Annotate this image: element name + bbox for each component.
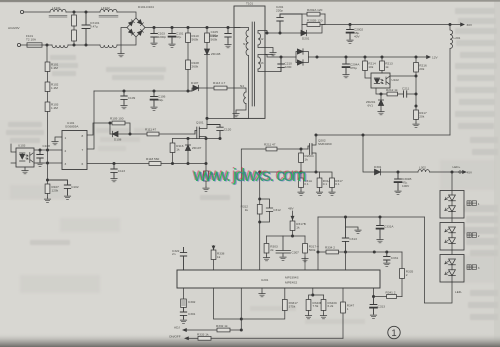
resistor R111 (130, 128, 195, 136)
primary return wire (206, 117, 249, 119)
svg-text:2: 2 (65, 149, 67, 153)
strip label 1 (467, 201, 480, 206)
svg-text:1: 1 (65, 136, 67, 140)
choke LF101 (49, 6, 67, 17)
resistor R109 (110, 117, 130, 135)
U102 emitter wire (376, 88, 387, 95)
svg-text:R118 560: R118 560 (146, 157, 159, 161)
svg-text:Q101: Q101 (196, 121, 204, 125)
svg-text:45V: 45V (467, 171, 473, 175)
svg-text:2k: 2k (270, 248, 274, 252)
sense resistor R301C (260, 172, 343, 195)
svg-text:R341 2: R341 2 (386, 291, 396, 295)
ADJ input (174, 326, 217, 332)
svg-text:375k: 375k (289, 305, 296, 309)
svg-text:10k: 10k (368, 65, 373, 69)
svg-text:0.1: 0.1 (323, 182, 328, 186)
capacitor C331A (377, 217, 395, 243)
svg-text:C302: C302 (188, 300, 196, 304)
electrolytic C2002 (347, 25, 364, 44)
capacitor C307 (276, 236, 299, 260)
transistor Q101 (195, 118, 207, 138)
startup resistor R101 (45, 45, 59, 72)
resistor R303 (263, 236, 278, 261)
resistor R107 (44, 180, 59, 202)
capacitor C314 (370, 297, 385, 319)
bridge rectifier D101-D104 (127, 5, 154, 37)
resistor R341 (372, 288, 402, 298)
current sense rail (259, 171, 318, 173)
LED D5 (445, 259, 456, 270)
wire (42, 38, 136, 47)
resistor R202A (302, 8, 325, 25)
resistor R312 (241, 199, 263, 223)
resistor R343C (320, 295, 338, 319)
svg-text:R109 100: R109 100 (110, 117, 124, 121)
svg-text:1k: 1k (245, 208, 249, 212)
svg-text:7: 7 (82, 148, 84, 152)
LED- return wire (424, 217, 462, 303)
capacitor C322 (172, 248, 187, 271)
resistor R333 (197, 332, 343, 340)
svg-text:LED-: LED- (455, 290, 462, 294)
T101 aux winding (236, 84, 246, 112)
svg-text:R334 2: R334 2 (325, 246, 335, 250)
svg-text:560k: 560k (192, 38, 199, 42)
resistor R335 (400, 252, 414, 297)
T101 winding N2 (258, 55, 265, 72)
capacitor C102 (48, 180, 79, 199)
zener ZD108 (205, 49, 221, 118)
resistor R317 (302, 236, 319, 270)
12V rail (308, 56, 438, 60)
watermark www.jdwxs.com (191, 164, 307, 186)
resistor R3317 (241, 288, 298, 319)
wire U103 to U101 pin3 (34, 162, 62, 164)
choke LF102 lower winding (100, 45, 117, 48)
svg-text:2200p: 2200p (209, 34, 218, 38)
svg-text:560k: 560k (309, 248, 316, 252)
LED D3 (445, 227, 456, 238)
diode D202A (296, 49, 308, 57)
svg-text:1.2M: 1.2M (51, 66, 58, 70)
LED+ output arrow (453, 165, 473, 175)
LED string box 1 (440, 172, 464, 218)
svg-text:1.2M: 1.2M (51, 106, 58, 110)
diode D108 (110, 131, 131, 141)
diode D301 (374, 165, 418, 175)
aux ground (233, 112, 239, 117)
resistor R334 (325, 246, 402, 254)
zener ZD107 (185, 139, 201, 164)
svg-text:8: 8 (82, 134, 84, 138)
svg-text:100V: 100V (402, 184, 410, 188)
bias wire (267, 235, 306, 237)
svg-text:C313: C313 (349, 237, 357, 241)
wire (24, 12, 136, 18)
svg-text:MPE4S2: MPE4S2 (285, 281, 297, 285)
svg-text:C312: C312 (273, 208, 281, 212)
capacitor C211 (402, 87, 417, 98)
svg-text:D107: D107 (191, 81, 199, 85)
comp wire (318, 251, 326, 253)
capacitor C331B (384, 252, 399, 266)
secondary lower wire (265, 55, 296, 72)
svg-text:2n: 2n (172, 252, 176, 256)
svg-text:T101: T101 (246, 2, 253, 6)
node column (317, 217, 319, 270)
capacitor C313 (342, 217, 361, 253)
resistor R213 (380, 57, 393, 73)
node junction (46, 150, 48, 181)
capacitor C301 (180, 308, 195, 324)
svg-text:MP3394S: MP3394S (285, 276, 299, 280)
svg-text:1k: 1k (176, 148, 180, 152)
svg-text:7.5k: 7.5k (313, 304, 319, 308)
svg-text:C313: C313 (378, 305, 386, 309)
optocoupler U103 (16, 144, 34, 168)
U103 cathode ground (11, 163, 28, 174)
svg-text:R212 1k: R212 1k (386, 88, 398, 92)
resistor R332 (216, 324, 241, 332)
choke LF102 (99, 6, 118, 17)
30V bus (322, 23, 473, 27)
svg-text:R211 47: R211 47 (264, 143, 276, 147)
sense resistor R301A (298, 172, 313, 195)
sense resistor R117 (203, 139, 217, 192)
svg-text:30V: 30V (467, 23, 473, 27)
gate wire from U201 (241, 149, 266, 270)
diode D107 (187, 81, 214, 92)
svg-text:6: 6 (82, 162, 84, 166)
svg-text:2: 2 (406, 273, 408, 277)
node (73, 44, 87, 46)
AC input terminal N (17, 43, 20, 46)
divider wire (259, 172, 261, 200)
resistor R2004 (299, 149, 314, 172)
svg-text:2: 2 (478, 234, 480, 238)
svg-text:120k: 120k (52, 189, 59, 193)
diode D201 (301, 25, 322, 41)
transformer T101 (234, 2, 265, 119)
capacitor C210 (278, 57, 292, 72)
source rail (173, 137, 222, 139)
svg-text:1k: 1k (385, 65, 389, 69)
LED D6 (445, 270, 456, 282)
capacitor C105 (209, 28, 231, 48)
electrolytic C106 (151, 91, 166, 110)
svg-text:N4: N4 (240, 84, 244, 88)
resistor R211 (264, 143, 308, 151)
VDD wire to U101 (87, 91, 94, 149)
svg-text:D301: D301 (374, 165, 382, 169)
svg-text:D108: D108 (114, 138, 122, 142)
resistor R217 (413, 106, 427, 127)
strip label 2 (467, 233, 480, 238)
svg-text:www. jdwxs. com: www. jdwxs. com (194, 166, 308, 186)
svg-text:ZD108: ZD108 (211, 52, 221, 56)
pin wire (214, 288, 243, 320)
svg-text:1k: 1k (305, 158, 309, 162)
resistor R113 (213, 81, 245, 90)
svg-text:AC220V: AC220V (8, 26, 20, 30)
resistor R212 (386, 88, 403, 96)
resistor R317B (290, 220, 306, 238)
resistor R105 (72, 26, 77, 45)
svg-text:D201: D201 (302, 37, 310, 41)
svg-text:C211: C211 (402, 87, 409, 91)
svg-text:470µ: 470µ (350, 66, 357, 70)
svg-text:C109: C109 (128, 96, 136, 100)
feedback sense wire (318, 216, 424, 218)
LED D1 (445, 195, 456, 206)
svg-text:C120: C120 (224, 128, 232, 132)
svg-text:C331A: C331A (384, 225, 394, 229)
svg-text:48V: 48V (288, 207, 294, 211)
svg-text:N1: N1 (243, 42, 247, 46)
svg-text:U201: U201 (261, 278, 269, 282)
svg-text:3: 3 (65, 162, 67, 166)
wire U103 to U101 (34, 149, 62, 151)
svg-text:R332 1k: R332 1k (216, 324, 228, 328)
CS wire from U101 (87, 162, 149, 164)
inductor L201 (450, 25, 461, 136)
capacitor CX101 (82, 12, 100, 45)
svg-text:0.47µ: 0.47µ (90, 25, 98, 29)
svg-text:2200p: 2200p (158, 35, 167, 39)
bottom scan shadow (0, 333, 500, 347)
svg-text:1: 1 (478, 202, 480, 206)
svg-text:12V: 12V (432, 56, 438, 60)
capacitor C201 (276, 5, 302, 33)
svg-text:L201: L201 (454, 36, 461, 40)
op-amp U101 controller (62, 121, 87, 170)
svg-text:6V1: 6V1 (368, 104, 374, 108)
capacitor C103 (151, 28, 167, 47)
svg-text:R202B 120: R202B 120 (307, 19, 323, 23)
electrolytic C101 (169, 28, 184, 48)
svg-text:560k: 560k (211, 38, 218, 42)
svg-text:R111 47: R111 47 (145, 128, 157, 132)
U201 ground pin (259, 288, 265, 297)
startup resistor R103 (45, 92, 59, 151)
svg-text:2200: 2200 (285, 65, 292, 69)
svg-text:20k: 20k (419, 67, 424, 71)
resistor R118 (146, 157, 207, 165)
svg-text:SG6859A: SG6859A (65, 125, 79, 129)
svg-text:T2 10A: T2 10A (26, 38, 37, 42)
boost diode feed (363, 135, 375, 172)
T101 center tap ground (265, 48, 276, 56)
resistor R110 (186, 28, 199, 61)
top scan edge (0, 0, 500, 2)
svg-text:ZD107: ZD107 (192, 146, 202, 150)
inductor L302 (418, 166, 459, 174)
gate drive wire (87, 122, 111, 135)
svg-text:L302: L302 (419, 166, 426, 170)
capacitor C113 (111, 164, 125, 182)
boost input wire (315, 134, 450, 136)
electrolytic C301B (395, 172, 412, 194)
sense resistor R301B (316, 172, 331, 195)
crystal X301 (181, 288, 196, 308)
resistor R108 (186, 60, 200, 91)
capacitor C108 (37, 144, 50, 166)
svg-text:0.1: 0.1 (335, 182, 340, 186)
choke LF101 lower winding (52, 45, 68, 48)
LED D4 (445, 238, 456, 254)
pin stub (345, 252, 347, 270)
svg-text:82µ: 82µ (158, 98, 163, 102)
svg-text:47µ: 47µ (176, 35, 181, 39)
LED D2 (445, 206, 456, 222)
svg-text:40V: 40V (354, 35, 360, 39)
svg-text:3: 3 (478, 266, 480, 270)
AC input terminal L (8, 10, 24, 30)
resistor R343B (305, 288, 323, 319)
ADJ column (240, 288, 242, 331)
page number circle 1 (388, 326, 400, 339)
U101 pin1 ground (52, 137, 62, 145)
node (73, 11, 87, 13)
svg-text:C102: C102 (71, 185, 79, 189)
svg-text:260k: 260k (192, 65, 199, 69)
resistor R214 (363, 57, 376, 78)
svg-text:C307: C307 (292, 251, 300, 255)
T101 primary winding (234, 28, 249, 119)
startup resistor R102 (45, 72, 59, 92)
capacitor C312 (260, 199, 281, 222)
svg-text:SMK0460: SMK0460 (318, 142, 332, 146)
divider lower wire (259, 222, 261, 270)
resistor R104 (72, 12, 77, 26)
optocoupler U102 (371, 73, 399, 88)
ON/OFF input (169, 334, 198, 339)
svg-text:20k: 20k (419, 115, 424, 119)
svg-text:C301: C301 (188, 312, 196, 316)
svg-text:R202A 120: R202A 120 (307, 8, 323, 12)
snubber C120 (207, 125, 231, 139)
svg-text:1: 1 (347, 307, 349, 311)
svg-text:R333 1k: R333 1k (197, 332, 209, 336)
diode D202B (296, 57, 308, 65)
svg-text:1.2M: 1.2M (51, 86, 58, 90)
resistor R202B (302, 14, 325, 26)
svg-text:1k: 1k (217, 255, 221, 259)
U102 collector wire (390, 75, 417, 77)
HV bus wire (145, 26, 240, 28)
zener ZD201 (366, 94, 384, 115)
T101 winding N1 (258, 31, 265, 48)
svg-text:U102: U102 (392, 78, 400, 82)
svg-text:U103: U103 (18, 144, 26, 148)
fuse F101 (21, 34, 42, 47)
svg-text:6.2k: 6.2k (328, 304, 334, 308)
strip label 3 (467, 265, 480, 270)
svg-text:C108: C108 (43, 144, 51, 148)
svg-text:220p: 220p (276, 9, 283, 13)
aux rail wire (94, 90, 192, 92)
resistor R112 (205, 28, 218, 50)
svg-text:D101-D104: D101-D104 (138, 5, 154, 9)
LED string box 2 (440, 223, 464, 251)
electrolytic C204 (343, 57, 361, 78)
capacitor C109 (121, 91, 136, 109)
48V supply arrow (288, 207, 294, 220)
resistor R347 (341, 288, 355, 338)
svg-text:ADJ: ADJ (174, 326, 180, 330)
svg-text:N2: N2 (260, 37, 264, 41)
svg-text:LED+: LED+ (453, 165, 461, 169)
bridge negative stub to ground (118, 28, 127, 57)
transistor Q202 (308, 135, 332, 172)
secondary top wire (265, 31, 301, 35)
svg-text:N3: N3 (260, 61, 264, 65)
resistor R338 (211, 246, 225, 271)
resistor R216 (414, 57, 427, 107)
svg-text:C113: C113 (118, 169, 125, 173)
svg-text:1: 1 (391, 328, 396, 339)
IC U201 (177, 270, 380, 288)
LED string box 3 (440, 255, 464, 283)
svg-text:C331: C331 (391, 256, 399, 260)
svg-text:1k: 1k (296, 226, 300, 230)
svg-text:ON/OFF: ON/OFF (169, 334, 181, 338)
resistor R116 (170, 139, 184, 164)
U103 anode stub (11, 144, 16, 152)
svg-text:R113 4.7: R113 4.7 (213, 81, 226, 85)
